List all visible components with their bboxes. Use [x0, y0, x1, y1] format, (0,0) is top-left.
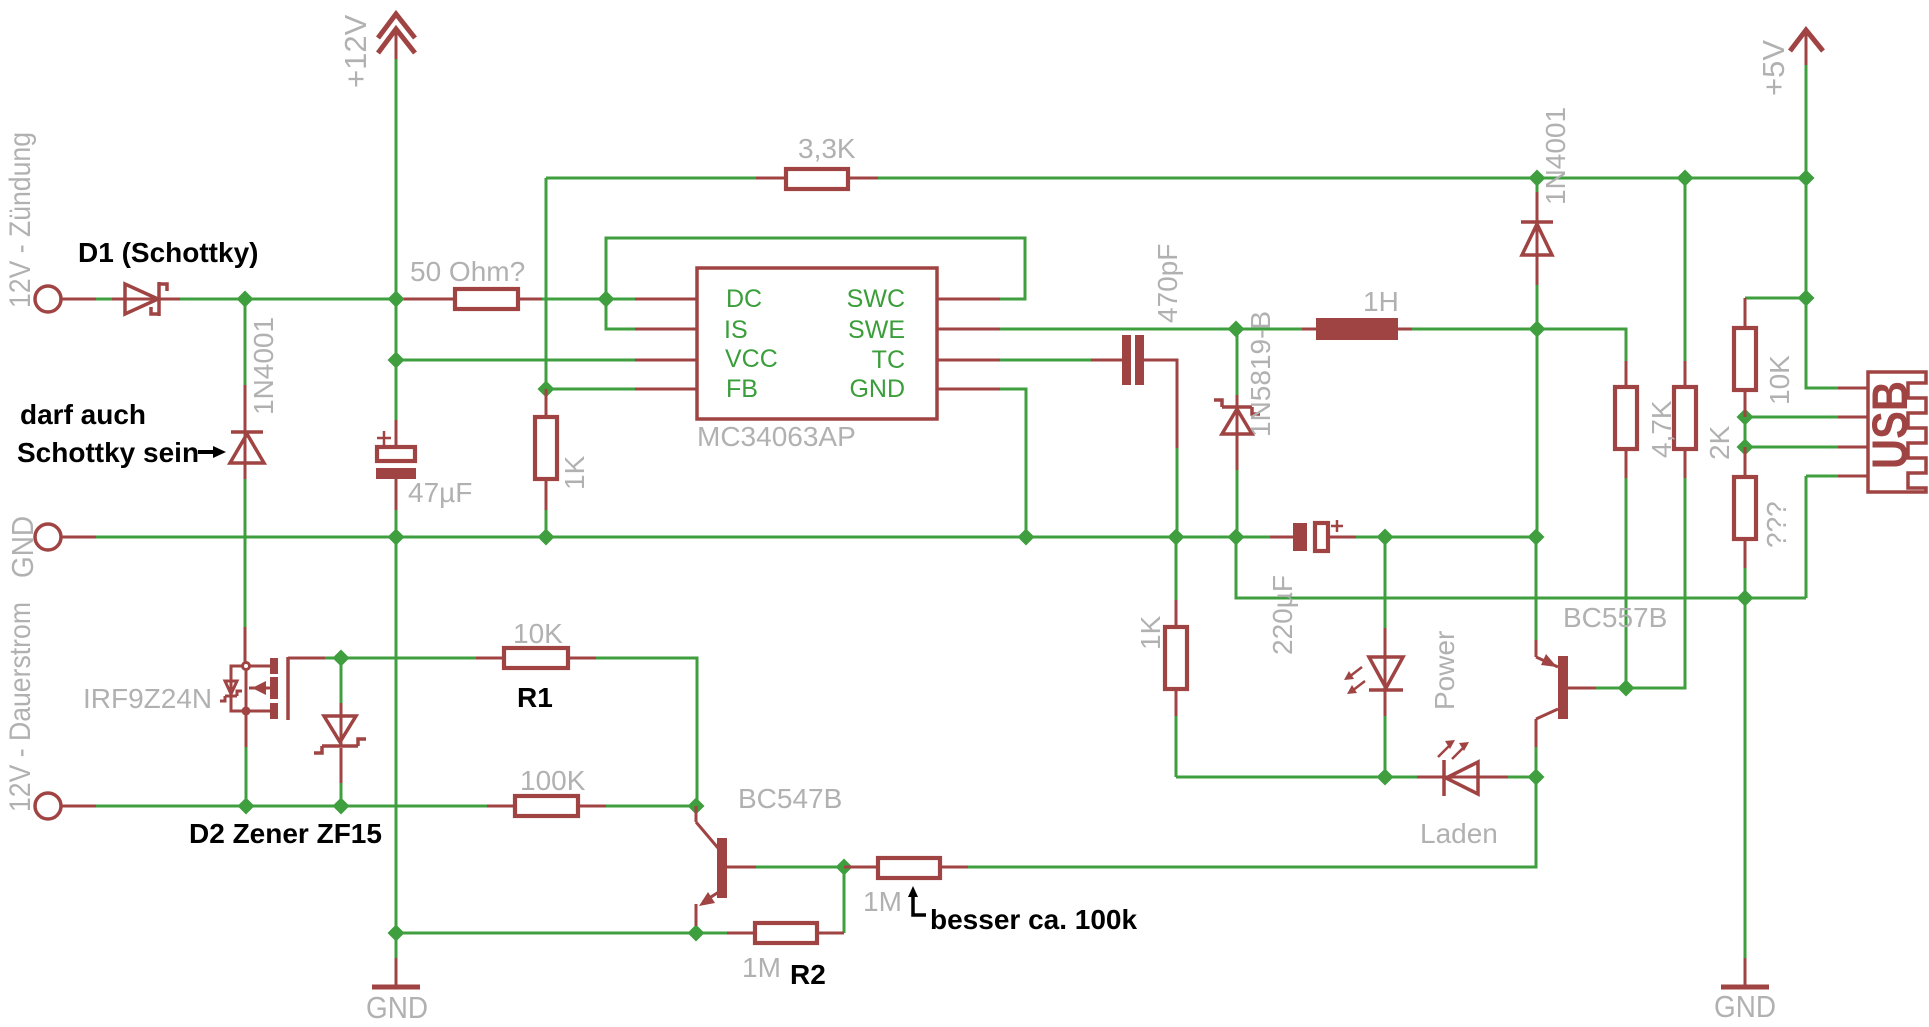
svg-text:1N4001: 1N4001 [1540, 107, 1571, 205]
svg-text:BC557B: BC557B [1563, 602, 1667, 633]
svg-text:+12V: +12V [338, 14, 373, 88]
svg-text:47µF: 47µF [408, 477, 472, 508]
svg-text:1M: 1M [742, 952, 781, 983]
svg-text:1N5819-B: 1N5819-B [1245, 311, 1276, 437]
svg-text:D2 Zener ZF15: D2 Zener ZF15 [189, 818, 382, 849]
svg-text:4,7K: 4,7K [1646, 400, 1677, 458]
svg-text:IRF9Z24N: IRF9Z24N [83, 683, 212, 714]
svg-text:1K: 1K [559, 455, 590, 490]
svg-text:10K: 10K [513, 618, 563, 649]
svg-text:220µF: 220µF [1267, 575, 1298, 655]
svg-text:100K: 100K [520, 765, 586, 796]
svg-text:1H: 1H [1363, 286, 1399, 317]
svg-text:Power: Power [1429, 631, 1460, 710]
svg-text:12V - Dauerstrom: 12V - Dauerstrom [4, 602, 37, 812]
svg-text:DC: DC [726, 285, 762, 313]
svg-text:IS: IS [724, 316, 748, 344]
svg-text:1N4001: 1N4001 [248, 317, 279, 415]
svg-text:2K: 2K [1704, 425, 1735, 460]
svg-text:R2: R2 [790, 959, 826, 990]
svg-text:Laden: Laden [1420, 818, 1498, 849]
svg-text:+5V: +5V [1756, 40, 1791, 96]
svg-text:10K: 10K [1764, 355, 1795, 405]
svg-text:FB: FB [726, 375, 758, 403]
svg-text:470pF: 470pF [1152, 244, 1183, 323]
svg-text:1K: 1K [1135, 615, 1166, 650]
svg-text:besser ca. 100k: besser ca. 100k [930, 904, 1137, 935]
svg-text:50 Ohm?: 50 Ohm? [410, 256, 525, 287]
svg-text:SWC: SWC [847, 285, 905, 313]
svg-text:3,3K: 3,3K [798, 133, 856, 164]
svg-text:D1 (Schottky): D1 (Schottky) [78, 237, 258, 268]
svg-text:GND: GND [366, 990, 428, 1025]
svg-text:1M: 1M [863, 886, 902, 917]
svg-text:12V - Zündung: 12V - Zündung [4, 132, 37, 308]
svg-text:GND: GND [5, 516, 40, 578]
svg-text:TC: TC [872, 346, 905, 374]
svg-text:Schottky sein: Schottky sein [17, 437, 199, 468]
svg-text:VCC: VCC [725, 345, 778, 373]
svg-text:GND: GND [1714, 989, 1776, 1024]
svg-text:BC547B: BC547B [738, 783, 842, 814]
svg-text:SWE: SWE [848, 316, 905, 344]
svg-text:darf auch: darf auch [20, 399, 146, 430]
svg-text:MC34063AP: MC34063AP [697, 421, 856, 452]
svg-text:GND: GND [849, 375, 905, 403]
svg-text:???: ??? [1761, 501, 1792, 548]
svg-text:USB: USB [1862, 381, 1918, 469]
svg-text:R1: R1 [517, 682, 553, 713]
